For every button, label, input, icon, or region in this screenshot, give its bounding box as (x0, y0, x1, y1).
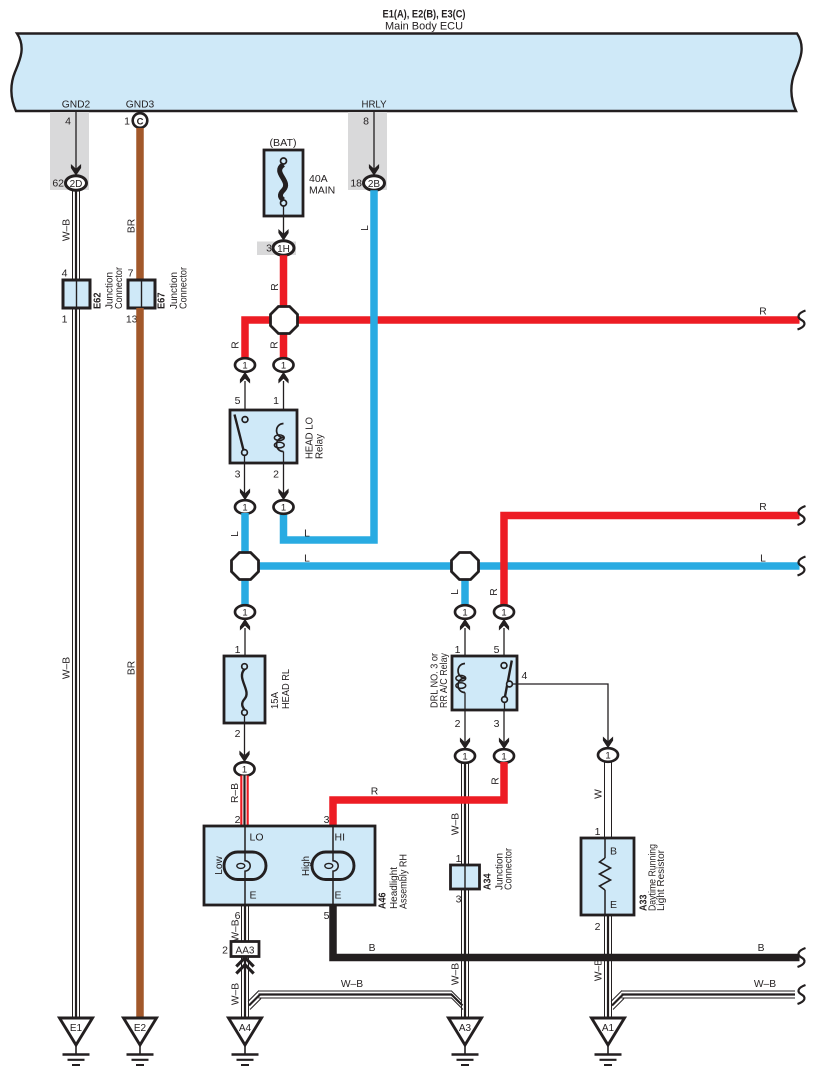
arrow up into oval pin5 (240, 372, 250, 384)
svg-text:L: L (230, 531, 241, 537)
connector 2B pin 18 (350, 176, 384, 191)
connector 2D pin 62 (52, 176, 86, 191)
wire W-B headlight pin6 to AA3 (231, 905, 249, 942)
svg-text:62: 62 (52, 178, 64, 190)
svg-text:W–B: W–B (594, 959, 605, 981)
arrow down into oval (pin2) (278, 489, 288, 501)
svg-text:LO: LO (250, 832, 264, 844)
svg-text:R: R (371, 787, 378, 798)
junction node octagon L1 (232, 553, 259, 580)
connector oval 1 (pin3 out) (235, 500, 255, 514)
svg-text:R: R (489, 588, 500, 595)
wire GND2 pin 4 lead (65, 111, 76, 171)
svg-text:L: L (760, 554, 766, 565)
wire R bus to right edge (284, 307, 800, 321)
svg-text:1: 1 (242, 608, 247, 619)
svg-text:Main Body ECU: Main Body ECU (385, 21, 463, 33)
svg-text:AA3: AA3 (236, 945, 255, 956)
relay HEAD LO (230, 410, 326, 463)
svg-text:A4: A4 (239, 1023, 252, 1034)
svg-text:18: 18 (350, 178, 362, 190)
connector oval 1 (pin2 out) (274, 500, 294, 514)
svg-text:Connector: Connector (504, 848, 515, 890)
arrow down into oval (pin3) (240, 489, 250, 501)
arrow down into oval (DRL pin2 out) (460, 738, 470, 750)
svg-text:E62: E62 (92, 292, 104, 309)
svg-text:1: 1 (62, 314, 68, 326)
svg-text:1: 1 (235, 644, 241, 656)
svg-text:A3: A3 (459, 1023, 472, 1034)
Main Body ECU band (wavy-ended bar) (11, 34, 801, 112)
arrow up into DRL pin1 oval (460, 619, 470, 631)
svg-text:E1(A), E2(B), E3(C): E1(A), E2(B), E3(C) (383, 9, 466, 21)
lead to relay pin 1 (273, 381, 283, 424)
svg-text:R: R (491, 777, 502, 784)
svg-text:1: 1 (242, 503, 247, 514)
svg-text:40A: 40A (309, 173, 328, 185)
lead DRL pin 2 (455, 710, 465, 742)
svg-text:E: E (610, 899, 617, 911)
wire W-B A34 to ground A3 (451, 889, 469, 1018)
svg-text:3: 3 (266, 243, 272, 255)
svg-text:E2: E2 (134, 1023, 147, 1034)
arrow up into 15A feed oval (240, 619, 250, 631)
svg-text:1: 1 (273, 395, 279, 407)
svg-text:1: 1 (242, 765, 247, 776)
svg-text:Relay: Relay (315, 433, 326, 459)
ground A1 (592, 1018, 625, 1065)
svg-text:HEAD RL: HEAD RL (281, 669, 292, 709)
wire BR from C to E67 (127, 128, 141, 280)
wire BR from E67 to ground E2 (127, 308, 141, 1018)
svg-text:5: 5 (324, 910, 330, 922)
connector oval 1 (15A feed) (235, 605, 255, 619)
lead to relay pin 5 (235, 381, 245, 417)
svg-text:R: R (759, 502, 766, 513)
break mark B wire (798, 948, 806, 967)
svg-text:A34: A34 (482, 873, 494, 890)
wire R DRL pin3 to headlight HI (333, 762, 504, 826)
svg-text:3: 3 (494, 718, 500, 730)
svg-text:W: W (594, 789, 605, 799)
svg-text:1: 1 (595, 826, 601, 838)
wire L main bus to right edge (245, 554, 800, 567)
svg-text:HRLY: HRLY (362, 99, 387, 111)
wire L octagon1 to oval below (241, 572, 249, 606)
bulb Low (224, 852, 266, 880)
svg-text:1: 1 (455, 644, 461, 656)
svg-text:A46: A46 (377, 892, 389, 909)
svg-text:4: 4 (65, 116, 71, 128)
ground A3 (449, 1018, 482, 1065)
svg-text:5: 5 (235, 395, 241, 407)
wire fuse to 1H (283, 206, 285, 236)
svg-text:L: L (450, 589, 461, 595)
svg-text:3: 3 (456, 894, 462, 906)
connector oval 1 (DRL pin3 out) (494, 749, 514, 763)
svg-text:B: B (610, 846, 617, 858)
ground E1 (60, 1018, 93, 1065)
svg-text:Connector: Connector (114, 267, 125, 309)
connector oval 1 (DRL pin1 feed) (455, 605, 475, 619)
svg-text:R: R (270, 283, 281, 290)
svg-text:1: 1 (605, 751, 610, 762)
svg-text:15A: 15A (270, 692, 281, 709)
svg-text:1: 1 (456, 853, 462, 865)
svg-text:L: L (304, 529, 310, 540)
node HRLY pin 8 lead (363, 111, 374, 171)
wire W-B bus A4 to A3 (259, 979, 453, 998)
bulb High (312, 852, 354, 880)
lead relay pin 3 (235, 463, 245, 494)
svg-text:L: L (304, 554, 310, 565)
svg-text:E: E (250, 890, 257, 902)
lead relay pin 2 (273, 463, 283, 494)
svg-text:R: R (759, 307, 766, 318)
svg-text:E1: E1 (70, 1023, 83, 1034)
shield chevrons on A4 wire (236, 958, 253, 967)
fuse 15A HEAD RL (224, 656, 292, 723)
svg-text:B: B (369, 943, 376, 954)
junction node octagon (R) (271, 307, 298, 334)
svg-text:1: 1 (501, 752, 506, 763)
svg-text:W–B: W–B (451, 963, 462, 985)
svg-text:Assembly RH: Assembly RH (399, 854, 410, 909)
wire W-B from 2D to E62 (62, 190, 80, 280)
arrow down into oval (DRL pin3 out) (499, 738, 509, 750)
svg-text:E: E (335, 890, 342, 902)
svg-text:L: L (360, 225, 371, 231)
svg-text:B: B (758, 943, 765, 954)
bus joint at A3 (452, 991, 464, 1010)
svg-text:5: 5 (494, 644, 500, 656)
lead DRL pin 3 (494, 710, 504, 742)
svg-text:4: 4 (522, 670, 528, 682)
arrow into 1H (278, 229, 288, 241)
wire R second bus from right edge to DRL relay pin 5 (504, 502, 800, 606)
svg-text:W–B: W–B (754, 979, 776, 990)
wire L octagon2 to oval below (461, 572, 469, 606)
wire B headlight pin5 to right edge (333, 905, 800, 958)
connector oval 1 (DRL pin2 out) (455, 749, 475, 763)
svg-text:W–B: W–B (451, 813, 462, 835)
svg-text:1H: 1H (277, 244, 290, 255)
svg-text:Low: Low (214, 856, 225, 875)
connector shading HRLY (348, 112, 387, 190)
wire W-B A33 to ground A1 (594, 915, 612, 1018)
svg-text:2B: 2B (368, 179, 381, 190)
svg-text:1: 1 (281, 503, 286, 514)
svg-text:13: 13 (126, 314, 138, 326)
resistor A33 daytime running light (581, 826, 667, 933)
svg-text:GND3: GND3 (126, 99, 155, 111)
svg-text:2: 2 (222, 945, 228, 957)
connector oval 1 (pin4 out) (598, 748, 618, 762)
connector oval 1 (DRL pin5 feed) (494, 605, 514, 619)
svg-text:W–B: W–B (231, 983, 242, 1005)
svg-text:RR A/C Relay: RR A/C Relay (439, 652, 450, 708)
svg-text:3: 3 (235, 469, 241, 481)
break mark R bus (798, 311, 806, 330)
svg-text:HI: HI (335, 832, 346, 844)
svg-text:W–B: W–B (62, 657, 73, 679)
wire L pin3 oval to octagon (230, 513, 245, 560)
wire R from 1H to junction octagon (270, 255, 284, 312)
wire W-B from E62 to ground E1 (62, 308, 80, 1018)
svg-text:1: 1 (242, 361, 247, 372)
svg-text:R–B: R–B (230, 783, 241, 803)
connector shading GND2 (50, 112, 89, 190)
svg-text:High: High (301, 856, 312, 876)
svg-text:2: 2 (235, 814, 241, 826)
svg-text:2: 2 (595, 921, 601, 933)
svg-text:BR: BR (127, 661, 138, 675)
relay DRL NO. 3 or RR A/C (430, 652, 518, 710)
svg-text:3: 3 (324, 814, 330, 826)
wire R octagon to relay pin 1 (280, 327, 288, 359)
svg-text:2D: 2D (70, 179, 83, 190)
connector oval 1 (relay pin 1 top) (274, 358, 294, 372)
svg-text:1: 1 (501, 608, 506, 619)
break mark R bus 2 (798, 506, 806, 525)
svg-text:W–B: W–B (231, 919, 242, 941)
svg-text:(BAT): (BAT) (270, 137, 297, 149)
svg-text:R: R (270, 341, 281, 348)
arrow into 2B (369, 164, 379, 176)
junction connector E62 (62, 267, 125, 326)
bus joint at A4 (248, 991, 261, 1010)
wire W-B bus A1 to right edge (622, 979, 796, 998)
lead to DRL pin 1 (455, 628, 465, 665)
lead to DRL pin 5 (494, 628, 504, 663)
lead DRL pin 4 to A33 column (512, 670, 608, 742)
svg-text:1: 1 (462, 608, 467, 619)
junction connector A34 (451, 848, 515, 906)
arrow up into oval pin1 (278, 372, 288, 384)
bus joint at A1 (611, 991, 624, 1010)
wire W-B DRL pin2 to A34 (451, 762, 469, 866)
svg-text:C: C (137, 116, 144, 127)
svg-text:2: 2 (273, 469, 279, 481)
svg-text:A1: A1 (602, 1023, 615, 1034)
ECU title: E1(A), E2(B), E3(C) Main Body ECU (383, 9, 466, 33)
connector C (GND3 pin 1) (124, 113, 147, 128)
svg-text:E67: E67 (156, 292, 168, 309)
lead 15A pin 2 (235, 715, 245, 755)
svg-text:4: 4 (62, 268, 68, 280)
wire L from HRLY 2B down and to relay pin 2 (284, 190, 375, 540)
svg-text:2: 2 (235, 728, 241, 740)
arrow up into DRL pin5 oval (499, 619, 509, 631)
junction connector E67 (126, 267, 190, 326)
connector shading 1H (257, 242, 296, 256)
wire R branch to head lo relay pin 5 (245, 320, 292, 359)
wire W pin4 oval to A33 (594, 762, 612, 839)
arrow into 2D (71, 164, 81, 176)
arrow down into oval (pin4 out) (603, 737, 613, 749)
connector 1H pin 3 (266, 241, 294, 256)
svg-text:Light Resistor: Light Resistor (656, 849, 667, 911)
connector AA3 pin 2 (222, 942, 259, 957)
svg-text:8: 8 (363, 116, 369, 128)
svg-text:1: 1 (281, 361, 286, 372)
ground E2 (124, 1018, 157, 1065)
svg-text:1: 1 (462, 752, 467, 763)
wire W-B AA3 to ground A4 (231, 957, 249, 1019)
fuse 40A MAIN (264, 137, 335, 216)
svg-text:Connector: Connector (179, 267, 190, 309)
svg-text:W–B: W–B (341, 979, 363, 990)
junction node octagon L2 (452, 553, 479, 580)
svg-text:1: 1 (124, 116, 130, 128)
svg-text:7: 7 (128, 268, 134, 280)
lead to 15A fuse pin 1 (235, 628, 245, 663)
break mark W-B bus (798, 985, 806, 1004)
break mark L bus (798, 557, 806, 576)
svg-text:GND2: GND2 (62, 99, 91, 111)
svg-text:MAIN: MAIN (309, 185, 335, 197)
svg-text:W–B: W–B (62, 219, 73, 241)
svg-text:R: R (231, 341, 242, 348)
wire R-B 15A out to headlight LO (230, 776, 245, 827)
arrow down into oval (15A out) (239, 751, 249, 763)
headlight assembly RH A46 (204, 814, 410, 922)
svg-text:2: 2 (455, 718, 461, 730)
connector oval 1 (15A out) (235, 762, 255, 776)
ground A4 (229, 1018, 262, 1065)
svg-text:BR: BR (127, 219, 138, 233)
connector oval 1 (relay pin 5 top) (235, 358, 255, 372)
